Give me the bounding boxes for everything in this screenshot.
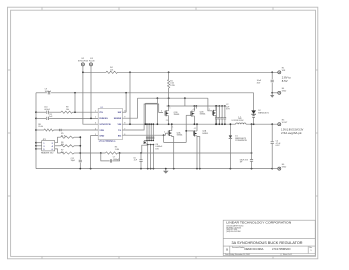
wire Q5 gate feed: [186, 130, 194, 132]
label C9 1000pF: [45, 89, 52, 93]
label R8 20.0k: [38, 124, 43, 128]
wire BG link horizontal: [164, 141, 187, 143]
wire E3 vertical to RUN/SS node: [90, 66, 92, 119]
op-amp U1 LTC1735 body: [98, 108, 122, 139]
junction dots cluster upper rail: [146, 140, 154, 142]
wire header pin1: [36, 142, 42, 144]
transistor Q2B: [191, 111, 195, 117]
wire cap bank C4 top lead: [221, 106, 223, 117]
wire cluster drop 4: [152, 124, 154, 140]
capacitor C12: [79, 160, 82, 162]
svg-text:MBRS340T3: MBRS340T3: [235, 138, 246, 140]
svg-text:10k: 10k: [110, 69, 113, 71]
wire R6 to FB bus: [74, 145, 80, 147]
svg-text:C10: C10: [44, 107, 47, 109]
wire bulk cap bottom lead: [251, 162, 253, 169]
capacitor C14 bulk: [250, 160, 253, 162]
wire cluster bus upper: [144, 139, 153, 141]
junction boost corner at SW: [145, 123, 147, 125]
svg-text:R5: R5: [61, 133, 63, 135]
diode D1 MBRS340T3: [229, 135, 232, 138]
junction dots at output node: [251, 123, 274, 125]
wire BG link down: [163, 135, 165, 142]
wire E6 stub: [272, 168, 278, 170]
label D2 MBR0530T1: [258, 110, 269, 114]
diode D3 body: [144, 141, 148, 144]
svg-text:4.7uF: 4.7uF: [276, 143, 282, 145]
wire SGND horizontal bus: [36, 92, 47, 94]
svg-text:R9: R9: [66, 107, 68, 109]
capacitor C4: [221, 117, 224, 119]
svg-text:SENSE: SENSE: [114, 118, 122, 120]
junction dots on left bus: [35, 111, 37, 150]
wire E2 vertical to SYNC/FCB pin: [83, 66, 98, 124]
label E2 SYNC/FCB: [78, 58, 89, 63]
connector JP1 header 3x2: [42, 141, 55, 151]
junction ground symbol tap: [165, 168, 167, 170]
title block address: [226, 225, 244, 234]
junction Q4 drain to SW: [171, 123, 173, 125]
junction dots cluster lower rail: [147, 144, 154, 146]
wire left vertical bus: [35, 93, 37, 169]
label Q1A Si9801: [177, 131, 183, 136]
wire INTVCC line left end: [80, 152, 105, 154]
diode D2: [251, 110, 256, 114]
wire U1 pin SW right stub: [122, 111, 126, 113]
U1 pin numbers: [95, 111, 126, 136]
svg-text:ITH: ITH: [99, 112, 103, 114]
wire E4 stub: [272, 92, 278, 94]
label C12 33pF: [71, 158, 76, 162]
wire ITH row mid: [49, 111, 61, 113]
label R6 20k: [61, 142, 64, 146]
U1 pin name labels: [99, 112, 122, 137]
svg-text:VFB: VFB: [99, 130, 104, 132]
svg-text:C4: C4: [276, 141, 278, 143]
wire gate feed Q2 upper: [184, 98, 186, 106]
svg-text:R7: R7: [61, 150, 63, 152]
wire cluster drop 3: [150, 124, 152, 140]
wire C7 loop left: [101, 153, 110, 161]
junction dots on VIN rail: [82, 71, 273, 73]
capacitor on cluster wire 1: [146, 137, 148, 138]
junction dots cap bank bottom: [216, 123, 226, 125]
svg-text:LTC1735MS8-G: LTC1735MS8-G: [99, 141, 116, 143]
label C4 4.7uF 6.3V: [276, 141, 282, 148]
svg-text:C7: C7: [113, 157, 115, 159]
label C8 boost cap: [155, 144, 163, 151]
capacitor C11: [47, 117, 49, 120]
resistor R1 sense: [167, 80, 169, 88]
label C7 1000pF: [113, 157, 120, 161]
wire header pin5: [36, 148, 42, 150]
wire Q4 source down: [172, 135, 174, 168]
wire Q2 source: [193, 116, 195, 124]
terminal E1 VIN: [278, 71, 281, 74]
wire FB bus vertical: [79, 137, 81, 159]
svg-text:PLLIN: PLLIN: [89, 61, 95, 63]
label D1 MBRS340T3 POWERMITE: [235, 136, 247, 143]
wire header pin3: [36, 145, 42, 147]
junction shared gate tap: [185, 130, 187, 132]
svg-text:1.5V/1.8V/2.5V/3.3V: 1.5V/1.8V/2.5V/3.3V: [281, 129, 304, 132]
wire C4 bottom lead: [271, 144, 273, 169]
svg-text:R8: R8: [38, 124, 40, 126]
capacitor C4: [271, 142, 274, 144]
wire cluster to ground 3: [152, 145, 154, 169]
wire cluster link to C6: [142, 145, 148, 153]
junction dots on INTVCC line: [100, 152, 253, 154]
capacitor on cluster wire 3: [150, 137, 152, 138]
svg-text:GND: GND: [99, 136, 104, 138]
label Q1B Si9801: [174, 112, 180, 116]
resistor R6: [61, 145, 75, 147]
svg-text:8.5V: 8.5V: [282, 79, 288, 83]
wire Q3 gate feed: [208, 98, 213, 111]
wire header pin6 to R7: [55, 149, 61, 153]
capacitor C7: [110, 159, 111, 162]
label R9 33k: [66, 107, 69, 111]
svg-text:1.0M: 1.0M: [115, 149, 120, 151]
svg-text:1: 1: [95, 111, 96, 113]
wire Q2 drain: [193, 106, 195, 111]
wire sense tap jog: [145, 102, 157, 104]
junction dots cluster top: [146, 123, 158, 125]
junction Q2 source to SW: [194, 123, 196, 125]
wire cluster to ground 1: [147, 145, 149, 169]
wire BG routing: [122, 134, 163, 136]
wire D1 bottom lead: [229, 139, 231, 169]
capacitor C5: [224, 117, 227, 119]
svg-text:SYNC/FCB: SYNC/FCB: [99, 124, 111, 126]
wire D2 to CB: [253, 114, 255, 115]
svg-text:10k: 10k: [66, 109, 69, 111]
transistor Q2B second: [212, 110, 216, 116]
label C14 68uF 25V SP: [240, 159, 249, 163]
note input voltage range: [282, 76, 291, 83]
svg-text:4: 4: [161, 111, 162, 113]
junction dots on sense rail: [157, 97, 186, 99]
transistor Q1B: [165, 110, 169, 116]
junction VIN feed at SW line: [129, 123, 131, 125]
label Q2B Si9801: [200, 111, 206, 115]
terminal E5 VOUT: [278, 123, 281, 126]
junction Q3 source to SW: [215, 123, 217, 125]
wire C6 bottom lead: [140, 162, 142, 169]
svg-text:C2: C2: [226, 104, 228, 106]
wire Q1 source: [168, 116, 170, 125]
svg-text:VIN: VIN: [118, 124, 122, 126]
junction Q5 drain to SW: [196, 123, 198, 125]
wire VFB row right: [54, 129, 99, 131]
resistor R8: [44, 129, 53, 131]
junction ITH-C9 link: [74, 111, 76, 113]
svg-text:C12: C12: [71, 158, 74, 160]
wire cluster to ground 2: [150, 145, 152, 169]
svg-text:20k: 20k: [61, 144, 64, 146]
wire cluster bus lower: [147, 144, 154, 146]
wire U1 SENSE to corner: [122, 98, 137, 118]
svg-text:D2: D2: [258, 110, 260, 112]
label E5 VOUT: [282, 120, 288, 125]
capacitor CB: [252, 116, 255, 118]
wire VIN feed down: [129, 72, 131, 124]
wire drain rail: [167, 105, 225, 107]
svg-text:1000pF: 1000pF: [45, 91, 52, 93]
wire header pin2 to R5: [55, 137, 61, 143]
test point E3: [90, 63, 93, 66]
svg-text:VOUT: VOUT: [282, 122, 288, 124]
capacitor C3: [218, 117, 221, 119]
svg-text:4 2: 4 2: [194, 128, 196, 130]
svg-text:Si9801: Si9801: [200, 114, 206, 116]
label E4 GND: [282, 88, 287, 93]
title block outline: [223, 220, 315, 255]
svg-text:MBR0530T1: MBR0530T1: [258, 112, 269, 114]
svg-text:2: 2: [164, 131, 165, 133]
svg-text:BG: BG: [118, 136, 122, 138]
svg-text:POWERMITE: POWERMITE: [235, 140, 247, 142]
wire cap bank C2 top lead: [216, 106, 218, 117]
wire header pin4 to R6: [55, 145, 61, 147]
wire Q3 drain: [215, 106, 217, 111]
svg-text:0.05: 0.05: [170, 83, 174, 85]
wire sense tap vertical: [156, 98, 158, 124]
capacitor C2: [215, 117, 218, 119]
svg-text:4 2: 4 2: [193, 109, 195, 111]
wire Q5 source 2: [197, 137, 200, 169]
label R7 10k: [61, 150, 64, 154]
svg-text:Si9801: Si9801: [174, 114, 180, 116]
inner border frame: [11, 10, 316, 256]
label C6 .1uF: [133, 157, 138, 161]
wire C1 top lead: [271, 72, 273, 79]
wire ITH row to pin: [73, 111, 99, 113]
svg-text:R3: R3: [115, 147, 117, 149]
wire SGND bus to boost corner: [51, 92, 254, 94]
svg-text:Si9801: Si9801: [202, 133, 208, 135]
wire C7 loop right: [112, 153, 119, 161]
wire cap bank C3 top lead: [218, 106, 220, 117]
wire D1 top lead: [229, 124, 231, 135]
wire cap bank C2 bottom lead: [216, 119, 218, 124]
svg-text:4: 4: [95, 128, 96, 130]
svg-text:VIN: VIN: [282, 70, 286, 72]
svg-text:C11: C11: [49, 114, 52, 116]
terminal E6 GND: [278, 167, 281, 170]
resistor R3: [106, 152, 118, 154]
capacitor C1: [271, 80, 274, 82]
wire RUN/SS row left: [36, 117, 46, 119]
resistor R4: [106, 71, 117, 73]
svg-text:0.068uF: 0.068uF: [155, 146, 163, 148]
wire boost feed vertical: [125, 93, 127, 112]
junction dots FB bus: [79, 136, 81, 154]
svg-text:Si9801: Si9801: [177, 135, 183, 137]
wire Q4 gate drop: [164, 133, 166, 135]
label C2 1uF: [226, 104, 230, 110]
wire cap bank C4 bottom lead: [221, 119, 223, 124]
wire Q4 gate stub: [165, 132, 168, 134]
wire R7 to FB bus: [74, 152, 80, 154]
junction Q1 source to SW: [168, 123, 170, 125]
wire Q2 gate feed: [186, 114, 191, 116]
transistor Q1A: [168, 130, 172, 136]
junction RUN/SS-E3: [90, 118, 92, 120]
svg-text:GND: GND: [282, 91, 287, 93]
wire link C9 line to ITH line: [74, 93, 76, 112]
label C11 .1uF: [49, 114, 54, 118]
wire Q4 drain: [171, 124, 173, 130]
junction BG node: [163, 134, 165, 136]
wire ITH row left: [36, 111, 46, 113]
svg-text:1000pF: 1000pF: [113, 159, 120, 161]
svg-text:10uF: 10uF: [257, 80, 262, 82]
svg-text:35.7k: 35.7k: [61, 135, 66, 137]
ground symbol at input cap: [270, 93, 274, 98]
ground symbol below ground bus: [163, 169, 169, 174]
wire R1 bottom lead: [168, 88, 170, 106]
label R1 0.05 1/2W: [170, 80, 175, 87]
wire C1 bottom lead: [271, 83, 273, 93]
wire left bus to ground bus: [36, 168, 272, 170]
junction D1 to SW: [230, 123, 232, 125]
wire Q2 body tie: [195, 106, 197, 109]
svg-text:2.5A avg/3A pk: 2.5A avg/3A pk: [281, 132, 302, 135]
transistor Q2A: [193, 130, 197, 136]
wire C4 top lead: [271, 124, 273, 141]
wire SW node main: [122, 123, 235, 125]
label E6 GND: [282, 164, 287, 169]
capacitor C6: [139, 160, 142, 162]
wire CB to SW: [253, 118, 255, 125]
svg-text:R1: R1: [170, 80, 172, 82]
wire VIN rail segment right: [118, 71, 278, 73]
svg-text:TG: TG: [118, 130, 121, 132]
wire R1 top lead: [168, 72, 170, 79]
wire R5 to FB bus: [74, 136, 80, 138]
wire Q3 source: [215, 115, 217, 124]
wire cap bank C3 bottom lead: [218, 119, 220, 124]
svg-text:10k: 10k: [61, 152, 64, 154]
svg-text:2: 2: [209, 109, 210, 111]
label C10 .001uF: [44, 107, 51, 111]
wire C12 to ground bus: [79, 163, 81, 169]
label R4 10k: [110, 67, 113, 71]
capacitor C9: [48, 91, 50, 94]
svg-text:C6: C6: [133, 157, 135, 159]
wire cluster drop 2: [148, 124, 150, 140]
wire L1 to output: [246, 123, 278, 125]
wire VFB row left: [36, 129, 44, 131]
capacitor C10: [47, 111, 49, 114]
resistor R9: [61, 111, 72, 113]
inductor L1: [236, 123, 246, 124]
svg-text:2: 2: [95, 117, 96, 119]
wire U1 GND pin down: [91, 136, 99, 169]
wire RUN/SS row to pin: [49, 117, 98, 119]
svg-text:LINEAR TECHNOLOGY CORPORATION: LINEAR TECHNOLOGY CORPORATION: [226, 221, 291, 225]
junction dots on drain rail: [168, 105, 226, 107]
svg-text:C9: C9: [45, 89, 47, 91]
svg-text:68uF 25V: 68uF 25V: [240, 159, 249, 161]
label C1 10uF 35V: [257, 80, 262, 84]
header pin numbers: [43, 143, 53, 151]
svg-text:20.0k: 20.0k: [38, 126, 43, 128]
svg-text:RUN/SS: RUN/SS: [99, 118, 108, 120]
svg-text:SYNC/FCB: SYNC/FCB: [78, 61, 89, 63]
label Q2A Si9801: [202, 130, 208, 135]
svg-text:1: 1: [172, 127, 173, 129]
junction dots on SGND bus: [74, 92, 127, 94]
wire shared gate vertical: [185, 115, 187, 142]
wire sense rail horizontal: [138, 97, 208, 99]
svg-text:1/2W: 1/2W: [170, 85, 175, 87]
svg-text:D1: D1: [235, 136, 237, 138]
wire cap bank C5 top lead: [224, 106, 226, 117]
label R5 35.7k: [61, 133, 66, 137]
resistor R5: [61, 136, 75, 138]
capacitor C13 small marks: [60, 129, 61, 131]
svg-text:X7R: X7R: [226, 109, 230, 111]
svg-text:1: 1: [170, 108, 171, 110]
wire boost corner vertical: [144, 103, 146, 124]
wire VIN rail segment left: [83, 71, 106, 73]
wire Q5 source 1: [196, 136, 198, 169]
wire cluster drop 1: [146, 124, 148, 140]
svg-text:2 3: 2 3: [166, 120, 168, 122]
terminal E4 GND: [278, 91, 281, 94]
wire boost drop from SGND bus: [253, 93, 255, 111]
wire C6 top lead: [140, 153, 142, 159]
test point E2: [81, 63, 84, 66]
resistor R7: [61, 152, 75, 154]
capacitor on cluster wire 2: [148, 137, 150, 138]
title block row lines: [223, 239, 315, 256]
svg-text:R6: R6: [61, 142, 63, 144]
label E1 VIN: [282, 68, 286, 73]
svg-text:GND: GND: [282, 166, 287, 168]
svg-text:3A SYNCHRONOUS BUCK REGULATOR: 3A SYNCHRONOUS BUCK REGULATOR: [232, 241, 303, 245]
junction dots on ground bus: [79, 168, 273, 170]
wire cap bank C5 bottom lead: [224, 119, 226, 124]
wire Q1 drain: [168, 106, 170, 111]
label E3 PLLIN: [89, 58, 95, 63]
junction node C1-E4: [271, 92, 273, 94]
svg-text:3: 3: [95, 123, 96, 125]
capacitor on cluster wire 4: [152, 137, 154, 138]
wire TG routing: [122, 104, 163, 130]
wire bulk cap top lead: [251, 124, 253, 159]
svg-text:.001uF: .001uF: [44, 109, 51, 111]
wire INTVCC line right: [118, 152, 252, 154]
label R3 1.0M: [115, 147, 120, 151]
wire Q5 drain: [196, 124, 198, 131]
